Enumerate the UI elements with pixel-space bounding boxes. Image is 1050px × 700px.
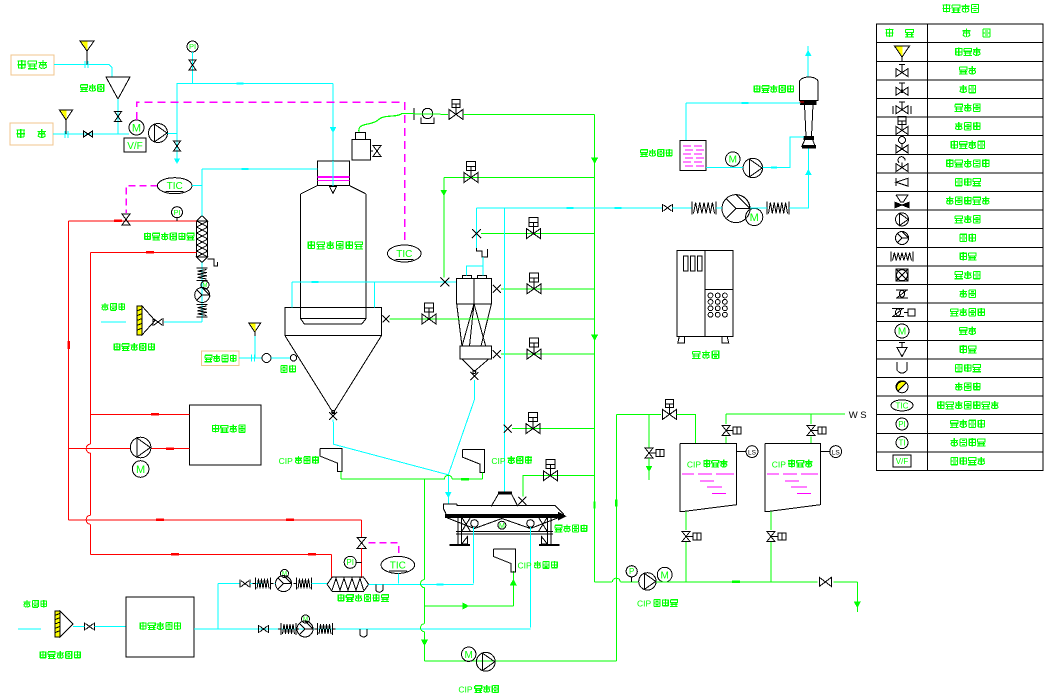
air duct below radiator xyxy=(201,263,203,323)
svg-text:PI: PI xyxy=(898,420,906,429)
svg-text:V/F: V/F xyxy=(896,457,909,466)
fan F2 motor xyxy=(281,570,289,578)
water film dust collector 水膜除尘器 xyxy=(800,77,819,101)
dry air line xyxy=(194,628,529,630)
red oil bottom line A xyxy=(69,519,362,521)
svg-text:M: M xyxy=(750,212,759,224)
legend row18 differential pressure gauge 压差计 xyxy=(897,362,907,373)
oil radiator 1 (vertical) xyxy=(197,216,208,222)
circulation pump xyxy=(743,158,762,177)
temperature controller TIC3 xyxy=(381,556,415,573)
spray water top line xyxy=(686,102,801,104)
oil supply line A top xyxy=(69,220,197,222)
check valve on intake xyxy=(152,318,154,326)
svg-text:LS: LS xyxy=(832,450,841,457)
legend row23 VFD 变频驱动 xyxy=(893,455,911,467)
red oil bottom line B xyxy=(91,553,332,555)
svg-text:M: M xyxy=(303,617,308,623)
svg-text:M: M xyxy=(661,570,669,581)
air filter F3 空气过滤器 xyxy=(137,306,142,335)
U trap 2 xyxy=(360,629,367,637)
cold air label bottom 冷空气 xyxy=(23,600,30,607)
CIP recovery hook 1 CIP回收罐 xyxy=(320,449,342,472)
svg-text:M: M xyxy=(499,523,505,530)
legend row17 spray gun 喷枪 xyxy=(901,343,903,348)
cyclone exhaust riser xyxy=(476,208,478,248)
intake fan F1 xyxy=(195,288,210,303)
vibrator motor xyxy=(498,521,506,529)
CIP branch hat xyxy=(523,476,595,497)
heated air line xyxy=(218,583,240,585)
silencer coil 6 xyxy=(317,623,319,635)
branch riser to heated line xyxy=(217,584,219,629)
CIP station riser xyxy=(615,414,617,661)
CIP wash pump CIP清洗泵 xyxy=(639,573,656,590)
legend row9 proportional valve 比例调节阀 xyxy=(895,202,902,208)
legend row13 rotary valve 旋转阀 xyxy=(896,269,908,281)
svg-text:TIC: TIC xyxy=(390,560,406,571)
svg-text:CIP: CIP xyxy=(637,599,652,609)
feed pump P1 xyxy=(149,124,168,143)
silencer coil lower xyxy=(197,304,208,306)
cold air intake pipe xyxy=(164,321,202,323)
air hammer 气锤 xyxy=(262,354,271,363)
valve V-CIP7 xyxy=(529,413,538,422)
svg-text:M: M xyxy=(465,650,473,661)
air dehumidifier 空气除湿机 xyxy=(126,597,194,657)
rotary valve under collector xyxy=(470,372,478,380)
spray dryer tower body 喷雾干燥主塔 xyxy=(301,194,367,324)
cyclone discharge line xyxy=(448,380,474,475)
tower skirt CIP port xyxy=(383,316,390,323)
valve V-CIP4 xyxy=(530,273,539,282)
CIP branch y429 xyxy=(512,428,595,430)
legend row10 feed pump 料液泵 xyxy=(896,213,909,226)
U trap 1 xyxy=(376,584,383,592)
vibrator wheels xyxy=(471,520,478,527)
legend row2 ball valve 球阀 xyxy=(896,69,902,77)
pressure gauge PI3 xyxy=(344,556,356,568)
valve V-CIP5 xyxy=(425,303,434,312)
atomizer motor xyxy=(352,140,370,161)
air box 2 xyxy=(766,201,768,214)
temperature controller TIC-A xyxy=(388,245,422,262)
fluid bed air inlets xyxy=(472,527,474,584)
TIC3 sense line xyxy=(398,573,400,583)
duct up to scrubber xyxy=(789,148,808,208)
valve on exhaust riser xyxy=(472,229,481,238)
svg-text:P: P xyxy=(629,567,634,576)
red oil line A vertical xyxy=(68,221,70,520)
legend row16 motor 电机 xyxy=(895,324,909,338)
hat CIP valve xyxy=(518,497,526,505)
tower cap xyxy=(318,161,350,186)
butterfly valve on duct xyxy=(440,278,449,287)
svg-text:M: M xyxy=(136,464,145,476)
valve on fb riser xyxy=(504,425,512,433)
pressure gauge PI2 xyxy=(172,207,183,218)
station1 outlet xyxy=(685,512,687,530)
product outlet label 产品出口 xyxy=(555,525,563,532)
collector side port xyxy=(493,350,501,358)
red oil line B to radiator bottom xyxy=(91,251,197,253)
temperature controller TIC2 xyxy=(157,178,192,194)
wash header drain xyxy=(856,582,858,612)
svg-text:M: M xyxy=(729,155,737,166)
fan F3 motor xyxy=(302,615,310,623)
fluid bed exhaust riser xyxy=(504,208,506,492)
valve V-CIP8 xyxy=(546,460,555,469)
legend row11 fan 风机 xyxy=(896,232,909,245)
legend row4 globe valve 截止阀 xyxy=(896,106,902,114)
svg-text:CIP: CIP xyxy=(518,561,533,571)
legend row14 butterfly valve 蝶阀 xyxy=(896,289,908,291)
compressed air line xyxy=(239,357,263,359)
legend table frame xyxy=(877,24,1043,470)
svg-text:TI: TI xyxy=(898,438,905,447)
furnace feed line xyxy=(91,413,190,415)
CIP branch y354 xyxy=(501,353,595,355)
compressed air label box 压缩空气 xyxy=(201,351,239,365)
CIP wash pump header xyxy=(595,581,613,583)
CIP branch y289 xyxy=(501,288,595,290)
legend row5 solenoid valve 电磁阀 xyxy=(898,116,906,124)
valve on tank outlet xyxy=(115,112,122,117)
fluid bed hat xyxy=(499,492,512,494)
filter F1 xyxy=(80,41,94,51)
oil radiator1 label 导热油散热器 xyxy=(144,233,151,241)
thermal oil pump xyxy=(130,437,151,458)
legend row19 steam trap 疏水器 xyxy=(896,381,908,393)
valve on wash header xyxy=(819,577,825,586)
main exhaust duct xyxy=(477,207,663,209)
CIP return pump motor xyxy=(462,647,476,661)
tower cone xyxy=(285,336,381,413)
svg-text:TIC: TIC xyxy=(396,249,412,260)
tower shoulders xyxy=(301,186,318,195)
svg-text:TIC: TIC xyxy=(167,181,183,192)
hot air inlet duct to cap xyxy=(202,168,318,170)
exhaust fan xyxy=(722,195,750,223)
circulation pump motor xyxy=(726,152,740,166)
svg-text:W S: W S xyxy=(849,410,867,421)
svg-text:CIP: CIP xyxy=(772,459,787,469)
WS water supply line xyxy=(726,413,845,415)
legend row20 temperature display controller 温度显示控制器 xyxy=(891,400,913,411)
cyclone separators (double) xyxy=(457,279,474,304)
tower air outlet duct to cyclones xyxy=(292,281,457,283)
CIP line to atomizer (green flex hose) xyxy=(359,114,402,133)
svg-text:V/F: V/F xyxy=(127,141,143,152)
valve V-CIP6 xyxy=(530,338,539,347)
fan motor M xyxy=(746,208,763,225)
fan F2 xyxy=(276,576,292,592)
vibrator springs xyxy=(447,518,558,529)
level switch LS2 xyxy=(820,451,829,453)
spray nozzle xyxy=(332,161,334,187)
rotary valve at cone apex xyxy=(329,412,337,420)
TIC2 sense line xyxy=(192,185,202,187)
oil pump suction line xyxy=(69,448,131,450)
check valve on exhaust xyxy=(662,204,664,212)
svg-text:CIP: CIP xyxy=(458,685,473,695)
cyclone side port xyxy=(493,285,501,293)
oil radiator 2 (horizontal capsule) xyxy=(327,577,369,591)
drain stub with angle valve xyxy=(648,414,650,448)
thermal oil furnace 导热油炉 xyxy=(190,405,261,465)
riser hook to cyclone inlets xyxy=(477,248,488,257)
radiator drain hook xyxy=(208,259,218,266)
legend row21 pressure indicator 压力指示 xyxy=(896,418,908,430)
svg-text:PI: PI xyxy=(173,208,180,217)
check valve heated line xyxy=(239,580,241,588)
legend row12 air box 风箱 xyxy=(890,252,892,262)
scrubber exhaust vent xyxy=(807,46,809,77)
svg-text:M: M xyxy=(132,122,141,134)
intake fan F1 motor xyxy=(201,281,209,289)
feed discharge pipe xyxy=(168,83,333,133)
heated line into radiator2 and to fluid bed xyxy=(369,583,474,585)
fluid bed legs and frame xyxy=(458,517,462,545)
legend row15 pneumatic butterfly valve 气动蝶阀 xyxy=(892,307,904,309)
CIP booster dome xyxy=(422,108,432,118)
valve on oil line (prop control) xyxy=(122,214,130,220)
cone discharge line xyxy=(333,419,448,504)
CIP return pump CIP回程泵 xyxy=(476,652,495,671)
CIP branch y319 xyxy=(390,318,595,320)
fan F3 xyxy=(297,621,313,637)
pure water pipe xyxy=(54,64,112,77)
check valve F4 xyxy=(84,623,86,631)
signal line M1 to TIC-A (magenta dashed) xyxy=(137,102,405,245)
svg-text:CIP: CIP xyxy=(687,459,702,469)
valve V-CIP3 xyxy=(529,218,538,227)
silencer coil 4 xyxy=(296,578,298,590)
legend row1 filter 过滤器 xyxy=(895,46,910,57)
drain stub with valve xyxy=(176,134,178,164)
svg-text:CIP: CIP xyxy=(491,456,506,466)
valve V-CIP1 (solenoid on atomizer CIP line) xyxy=(402,113,448,116)
feed liquid label box 料液 xyxy=(10,123,53,145)
CIP work station 1 CIP工作站 xyxy=(680,443,737,511)
valve under PI1 xyxy=(189,60,196,65)
feed pipe xyxy=(53,133,129,135)
CIP return pump line xyxy=(425,660,617,662)
valve on feed pipe xyxy=(84,131,89,137)
legend row3 needle valve 针阀 xyxy=(896,87,902,95)
valve V-CIP2 on duct injection branch xyxy=(467,162,476,171)
svg-text:PI: PI xyxy=(346,558,354,567)
silencer coil 3 xyxy=(255,578,257,590)
legend row7 steam control valve 蒸汽调节阀 xyxy=(896,164,902,172)
wash pump motor xyxy=(657,567,672,582)
svg-text:TIC: TIC xyxy=(896,401,909,410)
station2 outlet xyxy=(770,512,772,530)
silencer coil upper xyxy=(197,267,208,269)
svg-text:LS: LS xyxy=(748,450,757,457)
pressure gauge PI1 xyxy=(187,41,198,52)
motor M1 xyxy=(129,120,144,135)
cyclone collector box xyxy=(460,346,492,359)
CIP station supply line xyxy=(616,413,661,415)
CIP recovery hook 3 CIP回收罐 xyxy=(494,549,516,572)
CIP branch y234 from riser xyxy=(481,233,595,235)
wash header to stations xyxy=(656,581,817,583)
circulation water tank 循环水塔 xyxy=(680,141,706,171)
circulation pump piping xyxy=(706,167,743,169)
pure water tank 纯水罐 xyxy=(106,77,130,99)
control cabinet 控制柜 xyxy=(677,251,733,337)
CIP recovery header xyxy=(341,478,444,480)
legend row6 control ball valve 控制球阀 xyxy=(896,145,902,153)
oil pump motor xyxy=(132,461,149,478)
oil radiator2 label 导热油散热器 xyxy=(338,594,345,602)
legend row8 check valve 止回阀 xyxy=(895,178,897,186)
tower skirt xyxy=(285,307,381,335)
CIP main header top xyxy=(463,113,595,115)
svg-text:CIP: CIP xyxy=(279,456,294,466)
CIP work station 2 CIP工作站 xyxy=(765,443,820,511)
svg-text:M: M xyxy=(898,327,906,338)
signal TIC3 to valve (magenta) xyxy=(369,543,399,556)
WS drop to station1 xyxy=(725,414,727,424)
legend title 图样说明 xyxy=(943,4,951,13)
wash pump pressure gauge P xyxy=(626,566,637,577)
filter F5 xyxy=(249,323,261,332)
solenoid valve CIP station xyxy=(666,399,674,407)
svg-text:PI: PI xyxy=(189,42,196,51)
air filter F4 空气过滤器 xyxy=(55,611,60,637)
level switch LS1 xyxy=(737,451,746,453)
filter F2 xyxy=(60,110,73,120)
silencer coil 5 xyxy=(280,623,282,635)
prop valve on oil return xyxy=(357,537,366,543)
air box 1 xyxy=(691,201,693,214)
feed line down to atomizer xyxy=(332,83,334,161)
tank outlet pipe xyxy=(117,99,119,134)
cold air label 冷空气 xyxy=(101,303,108,310)
VFD box V/F xyxy=(124,138,146,152)
CIP injection branch to duct xyxy=(443,178,445,278)
legend header 符号 / 说明 xyxy=(886,29,894,38)
CIP return drop line xyxy=(424,479,426,580)
CIP hook3 branch xyxy=(425,605,514,607)
pure water label box 纯净水 xyxy=(11,55,54,75)
check valve dry line xyxy=(258,625,260,633)
fluidized bed dryer xyxy=(443,504,457,514)
CIP recovery hook 2 CIP回收罐 xyxy=(463,450,485,473)
signal TIC2 to valve (magenta) xyxy=(126,186,157,213)
WS drop to station2 xyxy=(810,414,812,424)
legend row22 temperature indicator 温度指示 xyxy=(896,437,908,449)
hot air riser through radiator xyxy=(201,169,203,216)
red oil line B vertical xyxy=(90,252,92,444)
